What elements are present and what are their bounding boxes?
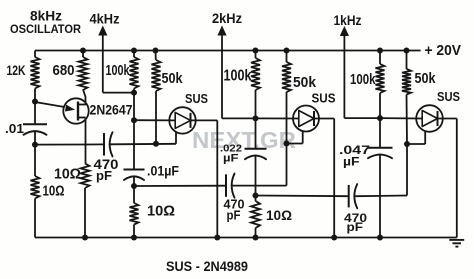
label 100k R8 (224, 68, 252, 85)
svg-text:NEXT.GR: NEXT.GR (192, 127, 296, 153)
label SUS1 (185, 91, 208, 106)
wire SUS3 anode (380, 117, 422, 119)
svg-text:50k: 50k (293, 74, 317, 91)
resistor R12 50k (402, 51, 411, 145)
node 100k2 top (253, 48, 259, 54)
svg-text:pF: pF (96, 168, 112, 183)
label 10ohm R2 (43, 184, 65, 200)
node 50k3 top (404, 48, 410, 54)
node SUS3 anode junction (377, 115, 383, 121)
wire SUS1 gate (175, 132, 177, 144)
svg-text:.047: .047 (339, 145, 370, 157)
wire anode drop (133, 93, 135, 121)
node gate3 junction (404, 141, 410, 147)
svg-text:SUS: SUS (437, 89, 460, 104)
svg-text:100k: 100k (350, 72, 376, 88)
svg-text:OSCILLATOR: OSCILLATOR (10, 22, 81, 36)
resistor R5 100k (130, 51, 139, 93)
capacitor C3 .01uF (124, 170, 145, 187)
wire SUS1 anode (134, 119, 175, 121)
label 10ohm R7 (147, 204, 175, 220)
label 10ohm R10 (266, 207, 292, 223)
wire SUS3 cathode (438, 119, 457, 238)
wire UJT base1 down (85, 118, 87, 164)
ground symbol (449, 240, 464, 247)
capacitor C2 470pF (35, 132, 176, 156)
label SUS-2N4989 (166, 259, 248, 274)
op-amp U1 SUS1 (169, 107, 195, 133)
node gate2 junction (284, 141, 290, 147)
resistor R1 12K (31, 51, 40, 102)
label .01 (5, 121, 24, 136)
wire trigger bus 1 (134, 185, 226, 187)
wire SUS3 gate (407, 131, 425, 144)
svg-text:50k: 50k (415, 71, 437, 87)
label OSCILLATOR (10, 22, 81, 36)
label SUS3 (437, 89, 460, 104)
wire SUS1 cathode (191, 120, 218, 237)
capacitor C4 470pF (226, 174, 287, 198)
capacitor C6 470pF (349, 184, 407, 208)
resistor R2 10ohm left (31, 145, 40, 238)
label 100k R11 (350, 72, 376, 88)
node 100k1 top (131, 48, 137, 54)
svg-text:SUS: SUS (312, 91, 336, 106)
label 2N2647 (90, 102, 133, 118)
svg-text:100k: 100k (224, 68, 252, 85)
svg-text:pF: pF (347, 220, 364, 234)
+20V supply rail (35, 50, 421, 52)
node 4kHz junction (131, 90, 137, 96)
wire anode cap drop (133, 120, 135, 169)
label 50k R9 (293, 74, 317, 91)
label 470 C4 (224, 198, 245, 223)
svg-text:2kHz: 2kHz (212, 10, 242, 26)
node C1 bottom junction (32, 142, 38, 148)
label 50k R6 (162, 71, 184, 87)
svg-text:µF: µF (223, 153, 239, 165)
node SUS2 cathode ground (331, 235, 337, 241)
ground rail (35, 237, 457, 239)
svg-text:50k: 50k (162, 71, 184, 87)
svg-text:SUS: SUS (185, 91, 208, 106)
label .022uF (220, 143, 242, 165)
label 50k R12 (415, 71, 437, 87)
svg-text:.01: .01 (5, 121, 24, 136)
node gate1 junction (153, 141, 159, 147)
node 50k2 top (284, 48, 290, 54)
svg-text:10Ω: 10Ω (266, 207, 292, 223)
node R7 ground (131, 235, 137, 241)
resistor R9 50k (282, 51, 291, 144)
node SUS1 cathode ground (214, 235, 220, 241)
node 100k3 top (377, 48, 383, 54)
node R10 ground (253, 235, 259, 241)
svg-text:4kHz: 4kHz (90, 11, 120, 27)
label .01uF (147, 164, 179, 179)
wire SUS2 cathode (314, 119, 334, 238)
resistor R4 10ohm base1 (81, 164, 90, 238)
label 470 C6 (344, 211, 367, 234)
label 680 (53, 62, 75, 79)
wire SUS2 gate (287, 131, 303, 144)
resistor R3 680 (79, 51, 88, 105)
label 470 C2 (94, 157, 119, 183)
resistor R11 100k (376, 51, 385, 119)
label 12K (7, 63, 26, 78)
label 2kHz (212, 10, 242, 26)
node SUS1 anode junction (131, 117, 137, 123)
svg-text:10Ω: 10Ω (54, 167, 81, 183)
wire trigger bus 2 (256, 195, 349, 198)
node C7 ground (377, 235, 383, 241)
resistor R6 50k (152, 51, 161, 144)
resistor R7 10ohm (130, 186, 139, 238)
wire gate3 riser (406, 144, 408, 196)
transistor Q1 2N2647 UJT (35, 98, 89, 123)
node 4kHz output arrow (98, 26, 134, 93)
svg-text:pF: pF (227, 209, 241, 223)
svg-text:2N2647: 2N2647 (90, 102, 133, 118)
capacitor C1 .01 (23, 102, 47, 145)
capacitor C5 .022uF (245, 118, 267, 195)
label 8kHz (30, 9, 62, 24)
resistor R10 10ohm (251, 196, 260, 238)
node C3 bottom junction (131, 183, 137, 189)
op-amp U3 SUS3 (416, 105, 443, 132)
label 100k R5 (106, 62, 130, 79)
svg-text:680: 680 (53, 62, 75, 79)
node 680 top (80, 48, 86, 54)
svg-text:1kHz: 1kHz (334, 12, 362, 28)
node emitter junction (32, 99, 38, 105)
label 1kHz (334, 12, 362, 28)
svg-text:10Ω: 10Ω (43, 184, 65, 200)
wire SUS2 anode (256, 117, 299, 119)
node 50k1 top (153, 48, 159, 54)
label 10ohm R4 (54, 167, 81, 183)
label 4kHz (90, 11, 120, 27)
node 1kHz output arrow (340, 26, 380, 118)
watermark NEXT.GR (192, 127, 296, 153)
svg-text:SUS - 2N4989: SUS - 2N4989 (166, 259, 248, 274)
node SUS2 anode junction (253, 115, 259, 121)
resistor R8 100k (251, 51, 260, 119)
label .047uF (339, 145, 370, 169)
label +20V (425, 43, 462, 59)
svg-text:+ 20V: + 20V (425, 43, 462, 59)
node C5 bottom junction (253, 193, 259, 199)
node R4 ground (82, 235, 88, 241)
label SUS2 (312, 91, 336, 106)
svg-text:100k: 100k (106, 62, 130, 79)
svg-text:10Ω: 10Ω (147, 204, 175, 220)
capacitor C7 .047uF (368, 118, 393, 237)
op-amp U2 SUS2 (293, 106, 319, 132)
svg-text:.01µF: .01µF (147, 164, 179, 179)
node 2kHz output arrow (217, 26, 255, 119)
svg-text:12K: 12K (7, 63, 26, 78)
svg-text:µF: µF (343, 157, 360, 169)
wire gate2 riser (286, 144, 288, 186)
